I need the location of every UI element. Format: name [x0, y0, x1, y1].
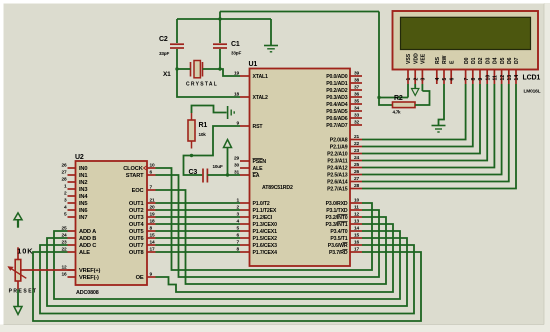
svg-text:D5: D5	[500, 57, 506, 64]
svg-text:RW: RW	[442, 55, 448, 64]
pin 15 P3.5/T1	[330, 233, 362, 242]
svg-text:D4: D4	[493, 57, 499, 64]
svg-text:7: 7	[464, 78, 470, 81]
pin 9 OE	[136, 272, 156, 281]
junction VSS node	[377, 96, 380, 99]
svg-text:P3.5/T1: P3.5/T1	[330, 236, 347, 242]
wire EOC to P3.2	[156, 190, 387, 284]
svg-text:20: 20	[150, 205, 156, 211]
svg-text:4: 4	[435, 78, 441, 81]
wire RW to ground	[439, 84, 445, 126]
pin 12 P3.2/INT0	[325, 212, 362, 221]
svg-text:P1.2/ECI: P1.2/ECI	[253, 215, 273, 221]
pin 29 PSEN	[234, 156, 266, 165]
svg-text:IN0: IN0	[79, 166, 87, 172]
svg-text:X1: X1	[163, 71, 171, 78]
svg-text:36: 36	[354, 92, 360, 98]
svg-text:U1: U1	[249, 61, 258, 68]
potentiometer RV1 10K PRESET	[7, 247, 37, 295]
svg-text:P2.5/A13: P2.5/A13	[327, 173, 348, 179]
svg-text:OUT1: OUT1	[129, 201, 144, 207]
svg-text:35: 35	[354, 99, 360, 105]
wire OUT2 to P1.1	[156, 209, 241, 211]
svg-text:P3.6/WR: P3.6/WR	[328, 243, 348, 249]
pin 7 D0	[464, 57, 470, 84]
svg-text:19: 19	[234, 71, 240, 77]
pin 7 EOC	[132, 185, 156, 194]
pin 37 P0.2/AD2	[326, 85, 362, 94]
wire D7 to P2.7	[362, 84, 516, 189]
pin 2 P1.1/T2EX	[236, 205, 276, 214]
svg-text:5: 5	[442, 78, 448, 81]
pin 18 OUT4	[129, 219, 156, 228]
svg-text:CRYSTAL: CRYSTAL	[186, 82, 218, 88]
svg-text:18: 18	[234, 92, 240, 98]
pin 12 VREF(+)	[61, 265, 100, 274]
pin 39 P0.0/AD0	[326, 71, 362, 80]
pin 24 ADD B	[61, 233, 96, 242]
svg-text:OUT7: OUT7	[129, 243, 144, 249]
ground symbol top	[264, 19, 278, 52]
wire to XTAL2	[177, 69, 240, 97]
svg-text:P1.7/CEX4: P1.7/CEX4	[253, 250, 278, 256]
pin 4 IN6	[64, 205, 87, 214]
svg-text:34: 34	[354, 106, 360, 112]
svg-text:26: 26	[61, 163, 67, 169]
svg-text:P0.2/AD2: P0.2/AD2	[326, 88, 348, 94]
pin 21 OUT1	[129, 198, 156, 207]
svg-text:10: 10	[485, 75, 491, 81]
pin 5 IN7	[64, 212, 87, 221]
junction XTAL1 node	[218, 67, 221, 70]
junction RST node	[190, 154, 193, 157]
wire C3 to EA	[207, 174, 240, 176]
svg-text:START: START	[126, 173, 144, 179]
svg-text:IN3: IN3	[79, 187, 87, 193]
pin 25 ADD A	[61, 226, 96, 235]
svg-text:4.7k: 4.7k	[393, 110, 401, 115]
svg-text:P0.3/AD3: P0.3/AD3	[326, 95, 348, 101]
LCD display LCD1 LM016L	[393, 11, 541, 95]
svg-text:32: 32	[354, 120, 360, 126]
svg-text:P2.2/A10: P2.2/A10	[327, 152, 348, 158]
pin 18 XTAL2	[234, 92, 268, 101]
pin 3 IN5	[64, 198, 87, 207]
svg-text:18: 18	[150, 219, 156, 225]
svg-text:21: 21	[150, 198, 156, 204]
svg-text:P0.1/AD1: P0.1/AD1	[326, 81, 348, 87]
svg-text:CLOCK: CLOCK	[123, 166, 144, 172]
resistor R2	[393, 95, 416, 115]
svg-text:VREF(+): VREF(+)	[79, 268, 100, 274]
pin 11 D4	[493, 57, 499, 84]
svg-text:RS: RS	[435, 56, 441, 64]
svg-text:14: 14	[354, 226, 360, 232]
pin 16 P3.6/WR	[328, 240, 362, 249]
svg-text:1: 1	[406, 78, 412, 81]
svg-text:P0.7/AD7: P0.7/AD7	[326, 123, 348, 129]
svg-text:P2.3/A11: P2.3/A11	[327, 159, 347, 165]
pin 36 P0.3/AD3	[326, 92, 362, 101]
pin 2 IN4	[64, 191, 88, 200]
pin 10 CLOCK	[123, 163, 155, 172]
pin 22 ALE	[61, 247, 90, 256]
svg-text:IN6: IN6	[79, 208, 87, 214]
pin 23 P2.2/A10	[327, 148, 362, 157]
svg-text:24: 24	[354, 155, 360, 161]
power terminal VDD	[412, 84, 419, 96]
svg-text:D1: D1	[471, 57, 477, 64]
pin 4 P1.3/CEX0	[236, 219, 277, 228]
svg-text:P3.7/RD: P3.7/RD	[329, 250, 348, 256]
power terminal VCC at pot	[14, 213, 22, 228]
svg-text:9: 9	[478, 78, 484, 81]
svg-text:D0: D0	[464, 57, 470, 64]
wire D2 to P2.2	[362, 84, 480, 154]
wire ADD B to P3.5	[47, 238, 407, 306]
svg-text:P2.1/A9: P2.1/A9	[330, 145, 348, 151]
svg-text:19: 19	[150, 212, 156, 218]
svg-text:IN5: IN5	[79, 201, 87, 207]
svg-text:10uF: 10uF	[213, 164, 223, 169]
ground terminal below pot	[14, 307, 22, 315]
pin 1 P1.0/T2	[236, 198, 269, 207]
svg-text:11: 11	[354, 205, 359, 211]
resistor R1	[188, 113, 207, 149]
pin 8 P1.7/CEX4	[236, 247, 277, 256]
svg-text:C1: C1	[231, 41, 240, 48]
wire OUT6 to P1.5	[156, 237, 241, 239]
svg-text:14: 14	[514, 75, 520, 81]
svg-text:12: 12	[500, 75, 506, 81]
power terminal VCC at EA	[224, 140, 232, 176]
svg-text:13: 13	[354, 219, 360, 225]
pin 1 VSS	[406, 53, 412, 84]
svg-text:P3.3/INT1: P3.3/INT1	[325, 222, 347, 228]
svg-text:D2: D2	[478, 57, 484, 64]
svg-text:26: 26	[354, 169, 360, 175]
svg-text:15: 15	[354, 233, 360, 239]
wire crystal right	[203, 68, 221, 70]
pin 33 P0.6/AD6	[326, 113, 362, 122]
wire ground rail lower	[177, 12, 271, 20]
wire R1 top to ground	[192, 106, 227, 114]
junction XTAL2 node	[175, 67, 178, 70]
svg-text:12: 12	[354, 212, 360, 218]
svg-text:IN7: IN7	[79, 215, 87, 221]
svg-text:P3.2/INT0: P3.2/INT0	[325, 215, 347, 221]
pin 6 E	[449, 60, 455, 84]
svg-text:13: 13	[507, 75, 513, 81]
pin 16 VREF(-)	[61, 272, 99, 281]
svg-text:XTAL1: XTAL1	[253, 74, 269, 80]
svg-text:E: E	[449, 60, 455, 64]
pin 19 OUT3	[129, 212, 156, 221]
pin 2 VDD	[413, 53, 419, 84]
wire ADD A to P3.4	[54, 231, 400, 299]
wire D5 to P2.5	[362, 84, 502, 175]
pin 5 P1.4/CEX1	[236, 226, 277, 235]
svg-text:VEE: VEE	[421, 53, 427, 64]
svg-text:P0.5/AD5: P0.5/AD5	[326, 109, 348, 115]
svg-text:ADD C: ADD C	[79, 243, 96, 249]
pin 35 P0.4/AD4	[326, 99, 362, 108]
svg-text:PSEN: PSEN	[253, 159, 267, 165]
wire D1 to P2.1	[362, 84, 473, 147]
wire OUT3 to P1.2	[156, 216, 241, 218]
svg-text:25: 25	[354, 162, 360, 168]
svg-text:OUT2: OUT2	[129, 208, 144, 214]
svg-text:ALE: ALE	[253, 166, 264, 172]
svg-text:VDD: VDD	[413, 53, 419, 64]
svg-text:P0.0/AD0: P0.0/AD0	[326, 74, 348, 80]
wire OUT7 to P1.6	[156, 244, 241, 246]
svg-text:C3: C3	[189, 169, 198, 176]
svg-text:D7: D7	[514, 57, 520, 64]
svg-text:10: 10	[354, 198, 360, 204]
svg-text:27: 27	[61, 170, 67, 176]
pin 30 ALE	[234, 163, 263, 172]
svg-text:LM016L: LM016L	[524, 89, 541, 95]
svg-text:C2: C2	[159, 36, 168, 43]
pin 22 P2.1/A9	[330, 141, 362, 150]
svg-text:16: 16	[61, 272, 67, 278]
pin 27 IN1	[61, 170, 87, 179]
pin 9 RST	[236, 121, 263, 130]
pin 8 OUT5	[129, 226, 156, 235]
svg-text:38: 38	[354, 78, 360, 84]
wire OUT4 to P1.3	[156, 223, 241, 225]
svg-text:R1: R1	[199, 122, 208, 129]
svg-text:39: 39	[354, 71, 360, 77]
svg-text:P2.4/A12: P2.4/A12	[327, 166, 348, 172]
pin 4 RS	[435, 56, 441, 84]
pin 8 D1	[471, 57, 477, 84]
svg-text:P2.0/A8: P2.0/A8	[330, 138, 348, 144]
wire START to P3.1	[156, 175, 380, 277]
svg-text:P0.6/AD6: P0.6/AD6	[326, 116, 348, 122]
pin 13 P3.3/INT1	[325, 219, 362, 228]
svg-text:29: 29	[234, 156, 240, 162]
svg-text:3: 3	[421, 78, 427, 81]
pin 15 OUT6	[129, 233, 156, 242]
svg-text:OUT5: OUT5	[129, 229, 144, 235]
wire ground rail to VSS	[379, 12, 408, 98]
svg-text:11: 11	[493, 75, 499, 81]
svg-text:ADC0808: ADC0808	[76, 290, 99, 296]
pin 9 D2	[478, 57, 484, 84]
svg-text:28: 28	[354, 183, 360, 189]
svg-text:10: 10	[150, 163, 156, 169]
wire pot bottom	[17, 289, 19, 306]
pin 27 P2.6/A14	[327, 176, 362, 185]
svg-text:R2: R2	[394, 95, 403, 102]
svg-text:33pF: 33pF	[231, 51, 241, 56]
pin 28 P2.7/A15	[327, 183, 362, 192]
wire OUT8 to P1.7	[156, 251, 241, 253]
svg-text:P3.4/T0: P3.4/T0	[330, 229, 347, 235]
svg-text:OUT8: OUT8	[129, 250, 144, 256]
svg-text:P3.0/RXD: P3.0/RXD	[326, 201, 348, 207]
capacitor C3	[189, 164, 223, 183]
svg-text:8: 8	[471, 78, 477, 81]
crystal X1	[163, 61, 218, 88]
svg-text:22: 22	[354, 141, 360, 147]
pin 6 START	[126, 170, 156, 179]
pin 25 P2.4/A12	[327, 162, 362, 171]
junction rail	[218, 17, 221, 20]
svg-text:6: 6	[449, 78, 455, 81]
svg-text:AT89C51RD2: AT89C51RD2	[262, 185, 293, 191]
svg-text:P1.0/T2: P1.0/T2	[253, 201, 270, 207]
svg-text:IN2: IN2	[79, 180, 87, 186]
pin 21 P2.0/A8	[330, 134, 362, 143]
pin 34 P0.5/AD5	[326, 106, 362, 115]
wire RST net	[192, 126, 241, 156]
svg-text:10k: 10k	[199, 132, 207, 137]
svg-text:VSS: VSS	[406, 53, 412, 64]
svg-text:33pF: 33pF	[159, 51, 169, 56]
svg-text:15: 15	[150, 233, 156, 239]
pin 5 RW	[442, 55, 448, 84]
pin 24 P2.3/A11	[327, 155, 362, 164]
svg-text:33: 33	[354, 113, 360, 119]
svg-text:P1.3/CEX0: P1.3/CEX0	[253, 222, 278, 228]
svg-text:P2.6/A14: P2.6/A14	[327, 180, 348, 186]
pin 14 D7	[514, 57, 520, 84]
ground symbol at R1	[228, 106, 235, 119]
svg-text:ALE: ALE	[79, 250, 90, 256]
svg-text:P1.1/T2EX: P1.1/T2EX	[253, 208, 277, 214]
svg-text:U2: U2	[75, 154, 84, 161]
wire ADD C to P3.6	[40, 245, 414, 314]
svg-text:OUT6: OUT6	[129, 236, 144, 242]
ground symbol below RW	[432, 126, 446, 133]
svg-text:XTAL2: XTAL2	[253, 95, 269, 101]
pin 32 P0.7/AD7	[326, 120, 362, 129]
svg-text:21: 21	[354, 134, 360, 140]
svg-text:P0.4/AD4: P0.4/AD4	[326, 102, 348, 108]
wire D6 to P2.6	[362, 84, 509, 182]
wire crystal left	[177, 68, 191, 70]
svg-text:PRESET: PRESET	[9, 289, 38, 295]
wire D3 to P2.3	[362, 84, 487, 161]
svg-text:IN4: IN4	[79, 194, 88, 200]
pin 10 P3.0/RXD	[326, 198, 362, 207]
svg-text:P1.5/CEX2: P1.5/CEX2	[253, 236, 278, 242]
capacitor C1	[213, 19, 241, 69]
svg-text:17: 17	[354, 247, 360, 253]
svg-text:30: 30	[234, 163, 240, 169]
pin 11 P3.1/TXD	[326, 205, 362, 214]
pin 38 P0.1/AD1	[326, 78, 362, 87]
svg-text:16: 16	[354, 240, 360, 246]
pin 17 OUT8	[129, 247, 156, 256]
svg-text:D3: D3	[485, 57, 491, 64]
svg-text:17: 17	[150, 247, 156, 253]
svg-text:D6: D6	[507, 57, 513, 64]
pin 14 OUT7	[129, 240, 156, 249]
svg-text:31: 31	[234, 170, 240, 176]
ADC U2 ADC0808	[61, 154, 155, 296]
pin 17 P3.7/RD	[329, 247, 362, 256]
pin 3 VEE	[421, 53, 427, 84]
pin 28 IN2	[61, 177, 87, 186]
pin 19 XTAL1	[234, 71, 268, 80]
wire OUT1 to P1.0	[156, 202, 241, 204]
pin 20 OUT2	[129, 205, 156, 214]
svg-text:10K: 10K	[17, 247, 33, 256]
pin 7 P1.6/CEX3	[236, 240, 277, 249]
svg-text:EA: EA	[253, 173, 260, 179]
pin 10 D3	[485, 57, 491, 84]
wire D0 to P2.0	[362, 84, 466, 140]
pin 6 P1.5/CEX2	[236, 233, 277, 242]
wire ground rail upper	[220, 11, 379, 13]
wire to XTAL1	[220, 69, 240, 76]
svg-text:RST: RST	[253, 124, 264, 130]
svg-text:P1.6/CEX3: P1.6/CEX3	[253, 243, 278, 249]
microcontroller U1 AT89C51RD2	[234, 61, 362, 266]
capacitor C2	[159, 19, 184, 69]
wire OUT5 to P1.4	[156, 230, 241, 232]
pin 1 IN3	[64, 184, 87, 193]
wire pot wiper to VREF+	[21, 269, 76, 271]
svg-text:EOC: EOC	[132, 188, 144, 194]
svg-text:LCD1: LCD1	[523, 75, 541, 82]
svg-text:2: 2	[413, 78, 419, 81]
svg-text:P1.4/CEX1: P1.4/CEX1	[253, 229, 278, 235]
pin 12 D5	[500, 57, 506, 84]
svg-text:28: 28	[61, 177, 67, 183]
wire R2 right to VEE	[415, 84, 430, 105]
pin 14 P3.4/T0	[330, 226, 362, 235]
wire OE to P3.3	[156, 224, 394, 292]
wire ALE to P3.7	[33, 252, 421, 321]
svg-text:OUT3: OUT3	[129, 215, 144, 221]
svg-text:P3.1/TXD: P3.1/TXD	[326, 208, 348, 214]
svg-text:37: 37	[354, 85, 360, 91]
pin 23 ADD C	[61, 240, 96, 249]
svg-text:VREF(-): VREF(-)	[79, 275, 99, 281]
svg-text:23: 23	[354, 148, 360, 154]
clock input marker	[144, 166, 147, 171]
svg-text:OE: OE	[136, 275, 144, 281]
svg-text:IN1: IN1	[79, 173, 87, 179]
svg-text:OUT4: OUT4	[129, 222, 145, 228]
wire CLOCK to P3.0	[156, 168, 373, 270]
svg-text:27: 27	[354, 176, 360, 182]
wire to R2 left	[379, 98, 393, 106]
pin 31 EA	[234, 170, 260, 179]
svg-text:ADD A: ADD A	[79, 229, 96, 235]
pin 3 P1.2/ECI	[236, 212, 272, 221]
wire D4 to P2.4	[362, 84, 494, 168]
pin 13 D6	[507, 57, 513, 84]
pin 26 P2.5/A13	[327, 169, 362, 178]
wire RST to C3	[184, 156, 203, 176]
junction EA node	[226, 173, 229, 176]
svg-text:P2.7/A15: P2.7/A15	[327, 187, 348, 193]
pin 26 IN0	[61, 163, 87, 172]
svg-text:ADD B: ADD B	[79, 236, 96, 242]
svg-text:14: 14	[150, 240, 156, 246]
